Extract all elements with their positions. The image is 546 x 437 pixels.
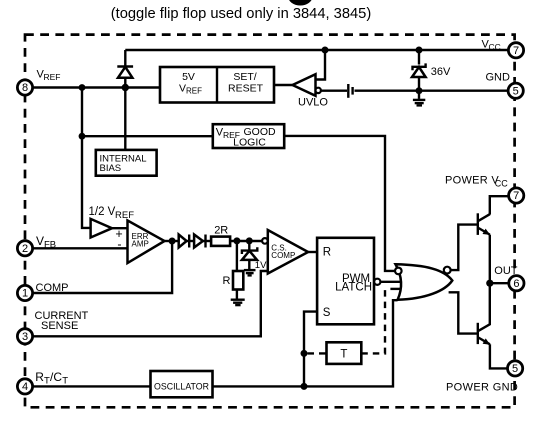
svg-text:7: 7 <box>513 190 519 202</box>
svg-text:OUT: OUT <box>494 265 518 277</box>
svg-text:AMP: AMP <box>132 240 149 249</box>
svg-text:(toggle flip flop used only in: (toggle flip flop used only in 3844, 384… <box>111 6 371 22</box>
svg-text:UVLO: UVLO <box>298 97 328 109</box>
svg-text:1: 1 <box>22 288 28 300</box>
svg-text:5: 5 <box>512 363 518 375</box>
svg-text:5: 5 <box>513 85 519 97</box>
svg-text:SENSE: SENSE <box>41 320 78 332</box>
svg-text:1V: 1V <box>255 260 267 271</box>
svg-text:R: R <box>323 247 331 259</box>
svg-text:R: R <box>223 275 231 287</box>
svg-text:T: T <box>62 376 68 387</box>
svg-text:5V: 5V <box>182 71 195 83</box>
svg-text:REF: REF <box>186 87 202 96</box>
svg-text:LATCH: LATCH <box>335 282 372 294</box>
svg-text:BIAS: BIAS <box>100 163 122 174</box>
svg-text:POWER V: POWER V <box>445 174 499 186</box>
svg-text:SET/: SET/ <box>233 71 256 83</box>
svg-text:3: 3 <box>22 331 28 343</box>
svg-text:FB: FB <box>44 239 56 250</box>
svg-text:COMP: COMP <box>36 282 69 294</box>
svg-text:RESET: RESET <box>228 83 264 95</box>
svg-text:4: 4 <box>22 381 28 393</box>
svg-text:GND: GND <box>486 72 511 84</box>
svg-text:/C: /C <box>50 370 62 384</box>
svg-text:T: T <box>340 349 347 361</box>
svg-text:2: 2 <box>22 243 28 255</box>
svg-text:8: 8 <box>22 82 28 94</box>
svg-text:V: V <box>179 83 186 95</box>
svg-text:2R: 2R <box>214 224 228 236</box>
svg-text:V: V <box>36 234 44 248</box>
svg-text:REF: REF <box>115 210 134 221</box>
svg-text:CC: CC <box>489 42 501 52</box>
svg-text:CC: CC <box>495 178 508 188</box>
svg-text:7: 7 <box>513 45 519 57</box>
svg-text:OSCILLATOR: OSCILLATOR <box>154 381 209 391</box>
svg-text:REF: REF <box>44 72 61 82</box>
svg-text:POWER GND: POWER GND <box>446 381 518 393</box>
svg-text:6: 6 <box>513 278 519 290</box>
svg-text:R: R <box>35 370 44 384</box>
svg-text:COMP: COMP <box>271 251 295 260</box>
svg-text:LOGIC: LOGIC <box>233 136 266 148</box>
svg-text:36V: 36V <box>431 66 451 78</box>
svg-text:1/2 V: 1/2 V <box>89 206 116 218</box>
svg-text:S: S <box>323 307 331 319</box>
